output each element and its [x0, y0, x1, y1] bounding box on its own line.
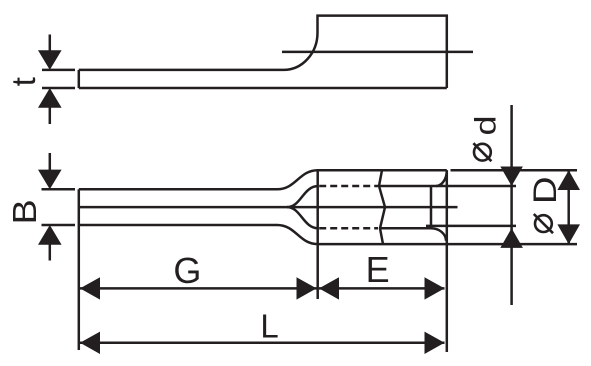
svg-text:L: L [260, 307, 278, 344]
svg-text:E: E [366, 249, 390, 290]
svg-text:D: D [528, 176, 563, 204]
svg-text:t: t [5, 77, 42, 86]
svg-text:B: B [6, 199, 43, 224]
svg-text:d: d [469, 115, 502, 135]
svg-text:G: G [173, 250, 201, 291]
